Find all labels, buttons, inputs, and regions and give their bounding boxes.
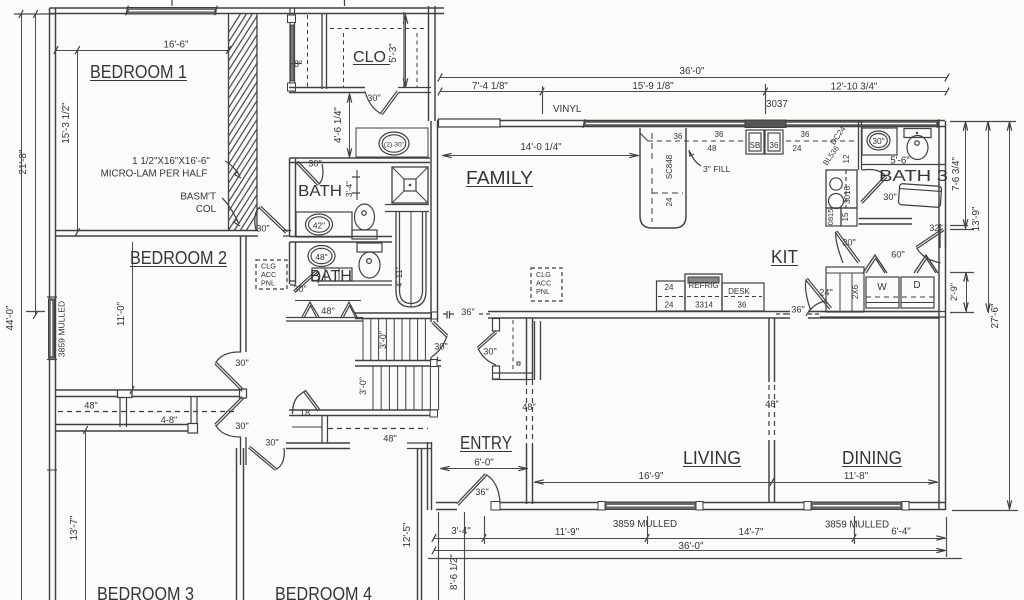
door entry closet 30 <box>479 333 497 349</box>
svg-text:6'-4": 6'-4" <box>891 527 911 538</box>
svg-text:KIT: KIT <box>771 247 798 267</box>
dim line 27-6 <box>1009 121 1011 510</box>
svg-text:30": 30" <box>256 224 269 234</box>
tub bath1 <box>396 212 426 307</box>
svg-text:30": 30" <box>434 342 447 352</box>
svg-text:30": 30" <box>883 192 896 202</box>
dim line 2-9 <box>966 272 968 312</box>
dim line 13-7 <box>85 430 87 600</box>
svg-text:60": 60" <box>891 250 904 260</box>
svg-text:8": 8" <box>294 59 302 69</box>
dim tick 32door <box>950 225 968 227</box>
svg-text:13'-7": 13'-7" <box>69 515 80 540</box>
clo right partition <box>403 12 405 88</box>
wall living top <box>488 311 790 313</box>
svg-text:3859 MULLED: 3859 MULLED <box>57 301 67 357</box>
svg-text:0815: 0815 <box>826 209 835 226</box>
entry closet rod dashed <box>512 320 514 373</box>
kitchen island <box>640 128 686 228</box>
tub bath3 <box>898 184 941 208</box>
tub deck <box>385 204 429 206</box>
svg-text:SC848: SC848 <box>665 154 674 179</box>
svg-text:BATH 3: BATH 3 <box>879 168 948 185</box>
svg-text:11'-0": 11'-0" <box>116 301 127 326</box>
svg-text:27'-6": 27'-6" <box>990 303 1001 328</box>
dim line 16-9 11-8 <box>534 482 938 484</box>
tick top wall window center <box>171 0 173 6</box>
door bath3 30 <box>861 176 886 202</box>
svg-text:24: 24 <box>665 301 674 310</box>
svg-text:36: 36 <box>674 132 683 141</box>
svg-text:24: 24 <box>665 197 674 206</box>
closet rod dashed <box>58 411 238 413</box>
vanity bath1 <box>312 268 352 281</box>
svg-text:3037: 3037 <box>766 99 788 110</box>
leader basmt col <box>222 198 239 224</box>
wall bath1 west <box>289 242 291 284</box>
dim right connector <box>950 121 1016 123</box>
dim line 11-0 <box>132 242 134 390</box>
hatched micro-lam wall <box>228 14 230 230</box>
svg-text:2'-9": 2'-9" <box>949 283 959 301</box>
wall right outer <box>938 121 940 510</box>
svg-text:48": 48" <box>315 252 327 262</box>
svg-text:48": 48" <box>522 402 535 412</box>
svg-text:MICRO-LAM PER HALF: MICRO-LAM PER HALF <box>101 169 208 180</box>
window living front <box>604 502 697 510</box>
washer <box>866 277 899 308</box>
svg-text:24: 24 <box>793 144 802 153</box>
dryer <box>901 277 934 308</box>
svg-text:D: D <box>913 280 920 291</box>
kitchen counter dashed <box>648 140 744 142</box>
leader 3in fill <box>690 152 701 166</box>
svg-text:15'-3 1/2": 15'-3 1/2" <box>61 102 72 144</box>
svg-text:44'-0": 44'-0" <box>5 305 16 330</box>
svg-text:VINYL: VINYL <box>553 104 582 115</box>
svg-text:W: W <box>877 282 887 293</box>
svg-text:8'-6 1/2": 8'-6 1/2" <box>449 554 460 590</box>
counter bath3 edge <box>861 164 945 166</box>
wall bath1 bottom <box>290 280 296 282</box>
wall bath3 south <box>859 218 913 220</box>
wall bedroom2 east <box>240 236 242 352</box>
svg-text:BEDROOM 4: BEDROOM 4 <box>275 584 372 600</box>
wall stair middle <box>355 360 441 362</box>
svg-text:16'-9": 16'-9" <box>639 471 664 482</box>
opening 36 family dashes <box>443 313 457 315</box>
svg-text:DINING: DINING <box>842 448 902 468</box>
wall entry front <box>436 502 457 504</box>
wall bed4 closet top <box>289 409 438 411</box>
svg-text:3'-4": 3'-4" <box>451 526 471 537</box>
wall entry closet jambs <box>493 319 500 332</box>
svg-text:6'-0": 6'-0" <box>474 458 494 469</box>
clo shelves dashed <box>307 15 309 89</box>
wd dashed <box>866 296 934 298</box>
dim line 3-4 bath2 <box>356 170 358 200</box>
svg-text:11'-9": 11'-9" <box>555 527 580 538</box>
bifold doors 48 <box>302 302 319 317</box>
wall closet bottom <box>56 424 189 426</box>
svg-text:30": 30" <box>293 284 306 294</box>
window family-kitchen 3037 <box>584 121 938 126</box>
svg-text:LIVING: LIVING <box>683 448 741 468</box>
svg-text:30": 30" <box>308 159 321 169</box>
ledge family nw <box>439 119 501 127</box>
svg-text:3859 MULLED: 3859 MULLED <box>825 520 889 531</box>
wall clo window strip <box>289 8 291 91</box>
dim line bottom A <box>434 538 946 540</box>
door hall-bed2 30 <box>215 364 243 392</box>
svg-text:48: 48 <box>708 144 717 153</box>
svg-text:36": 36" <box>475 487 488 497</box>
svg-text:BEDROOM 3: BEDROOM 3 <box>97 584 194 600</box>
svg-text:36'-0": 36'-0" <box>679 541 704 552</box>
svg-text:PNL: PNL <box>536 287 550 296</box>
toilet bath1 <box>357 243 382 252</box>
dim line 36-0 top <box>440 77 947 79</box>
svg-text:3'-0": 3'-0" <box>378 331 388 349</box>
wall entry closet bottom <box>493 372 534 374</box>
door kit-dining arc <box>806 301 826 316</box>
svg-text:48": 48" <box>321 306 334 316</box>
stairs lower flight risers <box>372 366 374 410</box>
window left bedroom2 <box>49 299 55 358</box>
svg-text:12: 12 <box>842 154 851 163</box>
window dining front <box>810 502 903 510</box>
range <box>826 170 857 208</box>
svg-text:24": 24" <box>819 288 832 298</box>
svg-text:3'-0": 3'-0" <box>358 377 368 395</box>
stairs upper flight risers <box>362 319 364 361</box>
svg-text:3" FILL: 3" FILL <box>703 164 731 174</box>
svg-text:4'-6 1/4": 4'-6 1/4" <box>333 107 344 143</box>
svg-text:5'-6": 5'-6" <box>890 156 910 167</box>
wall entry west <box>427 442 429 510</box>
svg-text:BASM'T: BASM'T <box>180 192 216 203</box>
dim line 16-6 <box>56 50 229 52</box>
svg-text:BEDROOM 1: BEDROOM 1 <box>90 62 187 82</box>
wall family opening jamb <box>446 311 448 319</box>
svg-text:14'-7": 14'-7" <box>739 527 764 538</box>
svg-text:30": 30" <box>367 93 380 103</box>
wall family west stub <box>430 357 432 361</box>
svg-text:SB: SB <box>750 141 761 150</box>
svg-text:48": 48" <box>84 401 97 411</box>
svg-text:11'-8": 11'-8" <box>844 471 869 482</box>
door hall-bed3 30 <box>216 398 244 426</box>
svg-text:36: 36 <box>738 301 747 310</box>
wall top <box>50 7 445 9</box>
wd bottom wall <box>820 311 946 313</box>
wall kit corner <box>858 160 860 170</box>
svg-text:4-8": 4-8" <box>161 415 178 425</box>
svg-text:15: 15 <box>841 212 850 221</box>
leader micro-lam <box>225 161 240 176</box>
door hall 32 <box>917 230 944 248</box>
range lower cells <box>826 208 841 226</box>
dim line 44ft <box>21 14 23 600</box>
vanity bath2 <box>296 212 352 237</box>
svg-text:3859 MULLED: 3859 MULLED <box>613 519 677 530</box>
wall bath2 west <box>289 158 291 236</box>
wall family west upper <box>428 6 430 121</box>
svg-text:36'-0": 36'-0" <box>680 66 705 77</box>
dim line 14-0 <box>442 155 639 157</box>
svg-text:24: 24 <box>665 283 674 292</box>
svg-text:30": 30" <box>235 358 248 368</box>
svg-text:4'-11": 4'-11" <box>394 267 404 288</box>
toilet bath2 <box>352 230 377 239</box>
clg acc pnl box family <box>531 268 562 301</box>
shower bath2 <box>392 167 428 203</box>
svg-text:7'-4 1/8": 7'-4 1/8" <box>472 81 508 92</box>
svg-text:1 1/2"X16"X16'-6": 1 1/2"X16"X16'-6" <box>132 156 210 167</box>
svg-text:36": 36" <box>791 305 804 315</box>
pantry <box>826 267 864 312</box>
dim line 5-3 <box>405 14 407 88</box>
entry closet mark <box>517 362 520 365</box>
door clo18 <box>293 391 321 415</box>
wall bedroom1 bottom <box>56 230 259 232</box>
svg-text:(2) 30": (2) 30" <box>384 142 405 149</box>
svg-text:PNL: PNL <box>261 279 275 288</box>
svg-text:36: 36 <box>715 130 724 139</box>
svg-text:COL: COL <box>196 204 217 215</box>
wall bath3 west <box>858 121 860 160</box>
wall family west mid <box>430 121 432 322</box>
dim top connector <box>14 13 56 15</box>
wall hall stub lower <box>240 437 242 465</box>
wall living-dining solid1 <box>768 318 770 382</box>
toilet bath3 <box>904 129 931 138</box>
svg-text:3314: 3314 <box>695 301 713 310</box>
svg-text:3'-4": 3'-4" <box>345 181 354 197</box>
door bedroom4 30 <box>250 446 277 469</box>
wall living-dining dashed 48 <box>768 385 770 438</box>
svg-text:42": 42" <box>313 221 325 231</box>
dim line 4-6 <box>349 93 351 158</box>
svg-text:21'-8": 21'-8" <box>18 149 29 174</box>
wall entry east dashed 48 <box>526 380 528 444</box>
wall living front <box>499 502 606 504</box>
svg-text:30": 30" <box>265 438 278 448</box>
dim line top tier2 <box>440 91 947 93</box>
window bedroom1 top <box>127 8 216 15</box>
door pantry 24 <box>806 280 830 310</box>
wall bath divider <box>290 236 393 238</box>
svg-text:36: 36 <box>770 141 779 150</box>
svg-text:BATH: BATH <box>298 183 342 200</box>
wall left outer <box>49 8 51 600</box>
wall family top <box>437 120 945 122</box>
svg-text:FAMILY: FAMILY <box>466 168 533 188</box>
clg acc pnl box hall <box>256 260 287 289</box>
vanity bath3 sink <box>862 128 897 155</box>
wall closet top <box>56 389 241 391</box>
door entry 36 <box>457 474 486 504</box>
svg-text:16'-6": 16'-6" <box>164 40 189 51</box>
wall bath3 corner stub <box>939 224 941 248</box>
svg-text:48": 48" <box>383 434 396 444</box>
wall bath2 top <box>290 157 431 159</box>
wall bedroom4 east <box>417 448 419 600</box>
svg-text:12'-10 3/4": 12'-10 3/4" <box>831 82 878 93</box>
dim bottom connectors <box>438 512 440 600</box>
wall stub bed2 door east <box>283 230 291 232</box>
svg-text:5'-3": 5'-3" <box>388 43 399 63</box>
bifold wd doors <box>863 255 887 273</box>
svg-text:15'-9 1/8": 15'-9 1/8" <box>632 81 674 92</box>
svg-text:36": 36" <box>461 307 474 317</box>
door bedroom2 30 <box>259 208 286 234</box>
door clo 30 <box>382 92 399 115</box>
faucet mark bath2 <box>352 176 360 178</box>
cabinet refrig <box>685 274 722 311</box>
window sink band <box>745 120 786 128</box>
wall stair south <box>355 312 437 314</box>
door family-stair 30 <box>433 321 448 335</box>
svg-text:30": 30" <box>872 136 884 146</box>
svg-text:32": 32" <box>929 223 942 233</box>
wall clo bottom <box>289 87 365 89</box>
svg-text:14'-0 1/4": 14'-0 1/4" <box>520 142 562 153</box>
wall entry east solid1 <box>526 318 528 380</box>
window left sill marks <box>47 296 57 298</box>
dim line 7-6 <box>965 122 967 230</box>
door wd hall 30 <box>835 232 858 263</box>
closet 18 divider <box>321 416 323 444</box>
svg-text:ENTRY: ENTRY <box>460 433 512 453</box>
wall living west extra <box>534 321 536 380</box>
wall dining top <box>808 311 939 313</box>
cabinet desk <box>722 283 764 311</box>
svg-text:30": 30" <box>483 347 496 357</box>
door bath2 30 <box>298 161 320 184</box>
wall clo inner <box>321 14 323 90</box>
window jamb boxes <box>598 502 605 511</box>
wall bedroom3-4 <box>236 448 238 600</box>
dim 8in tick <box>290 63 302 65</box>
svg-text:2X6: 2X6 <box>851 284 860 299</box>
svg-text:CLO: CLO <box>353 49 386 66</box>
closet divider b <box>190 397 192 425</box>
svg-text:18: 18 <box>300 408 310 418</box>
wall entry east solid2 <box>526 444 528 504</box>
svg-text:36: 36 <box>801 130 810 139</box>
dim line bottom B <box>434 550 946 552</box>
svg-text:BEDROOM 2: BEDROOM 2 <box>130 248 227 268</box>
dim line 6-0 <box>440 468 528 470</box>
svg-text:30": 30" <box>842 238 855 248</box>
dim line bottom C <box>428 558 962 560</box>
wall bed4 closet bottom <box>286 442 350 444</box>
dim line 13-9 <box>988 121 990 313</box>
closet divider a <box>119 397 121 428</box>
wall stair jambs <box>432 312 438 319</box>
dim line 21-8 <box>35 14 37 315</box>
svg-text:BATH: BATH <box>310 268 352 285</box>
dim line 15-3 <box>77 51 79 233</box>
wall bifold closet <box>286 317 363 319</box>
svg-text:DESK: DESK <box>728 287 750 296</box>
svg-text:30": 30" <box>235 421 248 431</box>
tick top wall clo joint <box>344 0 346 6</box>
wall living-dining solid2 <box>768 440 770 503</box>
svg-text:7-6 3/4": 7-6 3/4" <box>951 156 962 191</box>
svg-text:48": 48" <box>765 399 778 409</box>
cabinet 24 <box>657 281 686 311</box>
vanity hall 2x30 <box>356 128 428 157</box>
bed4 closet rod dashed <box>328 428 428 430</box>
kitchen sink <box>746 130 764 154</box>
door bath1 30 <box>294 271 316 291</box>
svg-text:3016: 3016 <box>843 186 852 204</box>
svg-text:13'-9": 13'-9" <box>971 206 982 231</box>
svg-text:12'-5": 12'-5" <box>402 522 413 547</box>
wall hall door post <box>240 389 247 398</box>
dim tick 3037 <box>765 84 767 114</box>
closet 18 shelf <box>292 426 322 428</box>
opening 36 dining dashes <box>786 313 790 315</box>
svg-text:REFRIG: REFRIG <box>688 281 718 290</box>
